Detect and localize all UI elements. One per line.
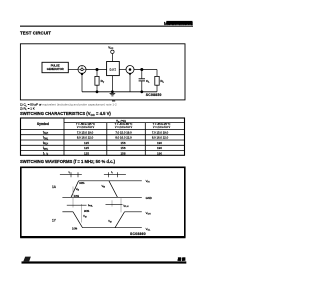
svg-text:VM: VM	[83, 214, 87, 219]
VCC supply terminal	[108, 45, 114, 61]
input level labels	[74, 181, 105, 198]
source connector G1	[78, 66, 86, 74]
footer rule	[22, 261, 187, 263]
svg-text:SC08860: SC08860	[130, 232, 146, 236]
svg-text:tTHL: tTHL	[43, 136, 49, 141]
GND label	[146, 196, 152, 200]
caption note 1	[20, 103, 117, 108]
figure 2 frame	[20, 167, 185, 237]
svg-text:SWITCHING CHARACTERISTICS (VCC: SWITCHING CHARACTERISTICS (VCC = 4.5 V)	[20, 111, 111, 117]
caption note 2	[20, 106, 35, 111]
svg-text:156: 156	[120, 151, 125, 155]
svg-text:tr, tf: tr, tf	[43, 151, 48, 156]
svg-text:VM: VM	[108, 219, 112, 224]
VIH label	[146, 179, 150, 184]
svg-text:90%: 90%	[84, 209, 90, 213]
footnote mark	[112, 100, 115, 101]
svg-text:VM: VM	[102, 184, 106, 189]
tf measure	[104, 170, 126, 177]
svg-text:tf: tf	[111, 170, 113, 175]
junction below source	[81, 73, 83, 75]
svg-text:tPLH: tPLH	[43, 141, 49, 146]
svg-text:V = 2.0 to 6.0 V: V = 2.0 to 6.0 V	[77, 126, 95, 129]
svg-text:125: 125	[84, 151, 89, 155]
svg-text:V = 2.0 to 6.0 V: V = 2.0 to 6.0 V	[153, 126, 171, 129]
svg-text:VIH: VIH	[146, 179, 150, 184]
pulse generator PG	[42, 62, 68, 72]
table row symbols	[43, 130, 49, 156]
svg-text:190: 190	[157, 146, 162, 150]
svg-text:190: 190	[157, 141, 162, 145]
junction CL bottom	[140, 90, 143, 93]
heading switching waveforms	[20, 159, 116, 164]
svg-text:1Y: 1Y	[52, 219, 57, 223]
junction DUT bottom	[111, 90, 114, 93]
figure code SC08860	[130, 232, 146, 236]
ground	[110, 93, 116, 96]
probe connector P1	[126, 66, 134, 74]
heading switching characteristics	[20, 111, 111, 117]
VOL label	[146, 227, 151, 232]
svg-text:tPLH: tPLH	[124, 204, 129, 209]
svg-text:8.0 16.0 22.0: 8.0 16.0 22.0	[152, 136, 169, 140]
resistor RT	[95, 70, 105, 92]
svg-text:PULSE: PULSE	[51, 63, 60, 67]
svg-text:tTLH: tTLH	[43, 130, 49, 135]
tPLH measure	[106, 198, 129, 212]
svg-text:156: 156	[120, 146, 125, 150]
svg-text:GND: GND	[146, 196, 152, 200]
svg-text:VOL: VOL	[146, 227, 151, 232]
svg-text:125: 125	[84, 146, 89, 150]
figure 1 frame	[20, 44, 185, 100]
output label 1Y	[52, 219, 57, 223]
svg-text:TEST CIRCUIT: TEST CIRCUIT	[20, 31, 51, 36]
svg-text:VOH: VOH	[146, 211, 151, 216]
svg-text:tPHL: tPHL	[43, 146, 49, 151]
svg-text:D.U.T.: D.U.T.	[110, 69, 117, 72]
output level labels	[72, 209, 112, 230]
junction RT bottom	[96, 90, 99, 93]
table header texts	[37, 119, 171, 129]
svg-text:156: 156	[120, 141, 125, 145]
header rule	[20, 26, 193, 27]
ground rail	[82, 91, 157, 93]
wire source ground return	[81, 74, 83, 92]
wire DUT to ground	[111, 76, 113, 92]
ST logo	[23, 257, 31, 262]
wire probe to load	[134, 69, 157, 71]
tr measure	[60, 170, 82, 177]
tPHL measure	[67, 187, 94, 223]
input waveform	[62, 181, 141, 198]
wire probe ground return	[129, 74, 131, 92]
svg-text:190: 190	[157, 151, 162, 155]
svg-text:90%: 90%	[79, 181, 85, 185]
svg-text:GENERATOR: GENERATOR	[47, 67, 64, 71]
svg-text:10%: 10%	[74, 194, 80, 198]
heading TEST CIRCUIT	[20, 31, 51, 36]
node RT top	[96, 68, 99, 71]
resistor RL	[155, 70, 165, 92]
DUT U1	[107, 62, 120, 76]
svg-text:V = 2.0 to 6.0 V: V = 2.0 to 6.0 V	[115, 126, 133, 129]
svg-text:VCC: VCC	[108, 45, 113, 50]
svg-text:tr: tr	[69, 170, 71, 175]
svg-text:7.0 15.0 19.0: 7.0 15.0 19.0	[152, 130, 169, 134]
svg-text:1A: 1A	[52, 185, 57, 189]
svg-text:RL: RL	[160, 79, 164, 84]
junction below probe	[129, 73, 131, 75]
input label 1A	[52, 185, 57, 189]
svg-text:tPHL: tPHL	[88, 203, 94, 208]
svg-text:10%: 10%	[72, 226, 78, 230]
page number	[177, 257, 185, 262]
svg-text:SWITCHING WAVEFORMS (f = 1 MHz: SWITCHING WAVEFORMS (f = 1 MHz; 50 % d.c…	[20, 159, 116, 164]
svg-text:SC08850: SC08850	[146, 93, 162, 97]
wire source to DUT input	[86, 69, 107, 71]
VOH label	[146, 211, 151, 216]
wire generator to source	[68, 69, 78, 71]
node CL top	[140, 68, 143, 71]
svg-text:7.0 15.0 19.0: 7.0 15.0 19.0	[115, 130, 132, 134]
svg-text:Symbol: Symbol	[37, 122, 49, 126]
svg-text:125: 125	[84, 141, 89, 145]
part number M54/74HC132	[164, 21, 193, 27]
svg-text:8.0 16.0 22.0: 8.0 16.0 22.0	[115, 136, 132, 140]
table row values	[77, 130, 169, 155]
output waveform	[62, 212, 141, 228]
capacitor CL	[139, 70, 151, 92]
svg-text:4/9: 4/9	[177, 257, 184, 262]
svg-text:CL: CL	[146, 79, 150, 84]
figure code SC08850	[146, 93, 162, 97]
wire DUT output to probe	[119, 69, 126, 71]
svg-text:VM: VM	[76, 187, 80, 192]
table frame	[21, 118, 185, 155]
svg-text:RT: RT	[101, 79, 105, 84]
svg-text:8.0 16.0 22.0: 8.0 16.0 22.0	[77, 136, 94, 140]
svg-text:7.0 15.0 19.0: 7.0 15.0 19.0	[77, 130, 94, 134]
